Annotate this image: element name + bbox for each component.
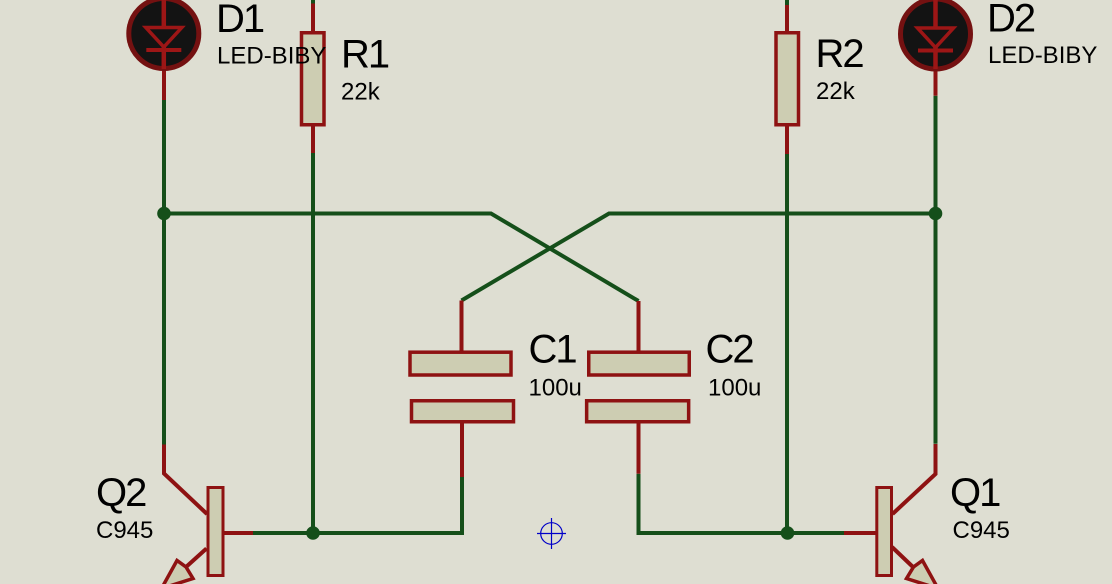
- pin Q2 emitter: [186, 549, 207, 568]
- pin Q1 collector: [893, 444, 936, 514]
- origin marker: [537, 518, 566, 549]
- svg-text:Q1: Q1: [950, 471, 1000, 515]
- value LED-BIBY (D1): [217, 43, 326, 70]
- junction at D1 line / top-left horizontal: [157, 207, 171, 221]
- pin R1 top: [311, 4, 315, 34]
- svg-text:C945: C945: [96, 517, 153, 544]
- LED D2: [901, 0, 971, 69]
- pin Q1 emitter: [892, 547, 914, 568]
- transistor Q2: [162, 488, 224, 584]
- resistor R1: [302, 33, 325, 125]
- junction at R2 line / bottom-right horizontal: [781, 526, 795, 540]
- pin R2 bottom: [785, 125, 789, 154]
- pin C1 bottom: [460, 422, 464, 477]
- svg-text:100u: 100u: [708, 375, 761, 402]
- value 100u (C2): [708, 375, 761, 402]
- pin Q1 base: [844, 531, 876, 535]
- wire D2 cathode to Q1 collector (vertical): [934, 96, 938, 444]
- wire stub above R2: [785, 0, 789, 5]
- svg-text:22k: 22k: [816, 78, 856, 105]
- svg-text:D1: D1: [216, 0, 264, 41]
- capacitor C1: [410, 352, 514, 422]
- pin R2 top: [785, 5, 789, 34]
- svg-text:C2: C2: [706, 328, 754, 372]
- label D1: [216, 0, 264, 41]
- pin D2 cathode: [934, 69, 938, 96]
- svg-text:LED-BIBY: LED-BIBY: [988, 42, 1097, 69]
- label R2: [816, 32, 864, 76]
- pin Q2 base: [224, 531, 253, 535]
- svg-text:R2: R2: [816, 32, 864, 76]
- junction at D2 line / top-right horizontal: [929, 207, 943, 221]
- svg-text:R1: R1: [341, 33, 389, 77]
- value C945 (Q1): [953, 517, 1010, 544]
- wire D1 cathode to Q2 collector (vertical): [162, 100, 166, 445]
- svg-text:22k: 22k: [341, 79, 381, 106]
- value 22k (R2): [816, 78, 856, 105]
- value C945 (Q2): [96, 517, 153, 544]
- pin C1 top: [460, 301, 464, 353]
- pin Q2 collector: [164, 445, 207, 515]
- value 22k (R1): [341, 79, 381, 106]
- svg-text:LED-BIBY: LED-BIBY: [217, 43, 326, 70]
- wire bottom-left: Q2 base to C1 bottom: [253, 477, 462, 533]
- svg-text:C945: C945: [953, 517, 1010, 544]
- pin D1 cathode: [162, 69, 166, 100]
- svg-text:C1: C1: [529, 328, 577, 372]
- resistor R2: [776, 33, 799, 125]
- LED D1: [129, 0, 199, 69]
- wire top-right horizontal with diagonal to C1 top: [462, 214, 936, 301]
- label C1: [529, 328, 577, 372]
- transistor Q1: [877, 488, 938, 584]
- wire R1 bottom vertical to lower-left junction: [311, 153, 315, 533]
- pin R1 bottom: [311, 125, 315, 153]
- svg-text:Q2: Q2: [96, 471, 146, 515]
- value LED-BIBY (D2): [988, 42, 1097, 69]
- label D2: [987, 0, 1035, 41]
- label C2: [706, 328, 754, 372]
- svg-text:100u: 100u: [529, 375, 582, 402]
- pin C2 top: [637, 301, 641, 352]
- label Q2: [96, 471, 146, 515]
- label Q1: [950, 471, 1000, 515]
- wire stub above R1: [311, 0, 315, 4]
- label R1: [341, 33, 389, 77]
- wire R2 bottom vertical to lower-right junction: [785, 154, 789, 533]
- pin C2 bottom: [637, 422, 641, 474]
- svg-text:D2: D2: [987, 0, 1035, 41]
- junction at R1 line / bottom-left horizontal: [306, 526, 320, 540]
- wire top-left horizontal with diagonal to C2 top: [164, 214, 639, 302]
- wire bottom-right: C2 bottom to Q1 base: [639, 474, 845, 533]
- value 100u (C1): [529, 375, 582, 402]
- capacitor C2: [587, 352, 690, 422]
